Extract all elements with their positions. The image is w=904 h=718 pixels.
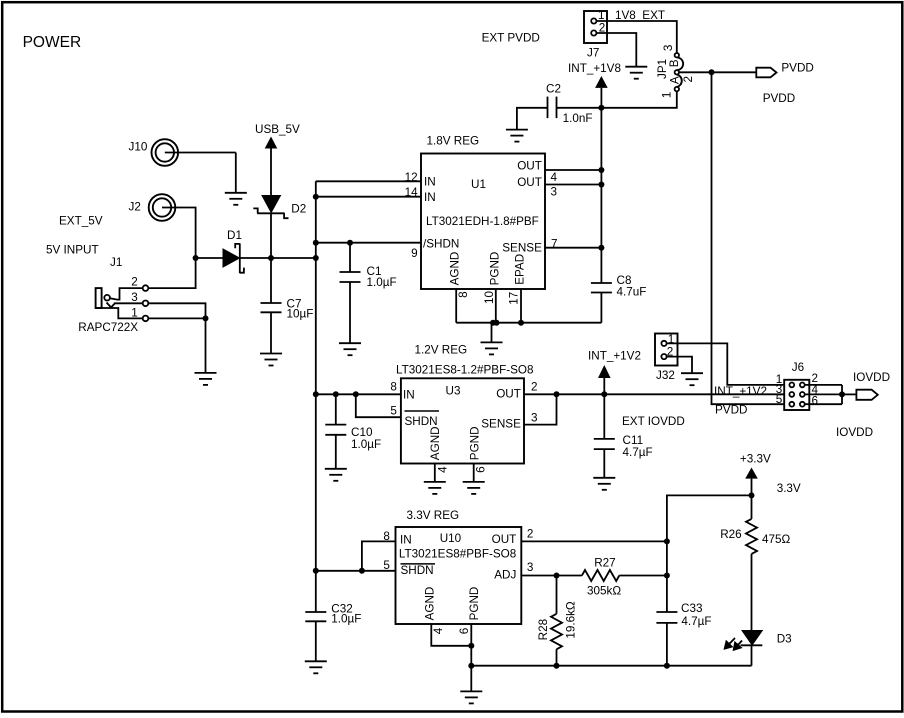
wire U1 /SHDN pin9 xyxy=(316,242,421,244)
svg-text:EXT IOVDD: EXT IOVDD xyxy=(622,415,685,428)
op-amp U3 LT3021ES8-1.2 xyxy=(390,364,537,473)
wire J32 pin1 to J6 pin1 xyxy=(667,343,790,385)
resistor R27 xyxy=(557,557,667,598)
junction INT_+1V8 node xyxy=(598,105,604,111)
svg-text:14: 14 xyxy=(405,186,419,199)
wire INT_+1V8 vertical rail xyxy=(600,108,602,283)
wire U1 pin14 IN xyxy=(316,196,421,198)
junction xyxy=(598,182,604,188)
ground xyxy=(506,130,528,142)
connector J7 xyxy=(584,9,607,60)
svg-text:C2: C2 xyxy=(546,83,561,96)
svg-text:1.0nF: 1.0nF xyxy=(563,112,593,125)
ground xyxy=(463,482,485,494)
svg-text:OUT: OUT xyxy=(517,160,542,173)
svg-text:1: 1 xyxy=(131,306,138,319)
net flag IOVDD output xyxy=(853,371,890,400)
junction xyxy=(468,663,474,669)
ground xyxy=(593,478,615,490)
svg-text:6: 6 xyxy=(812,394,819,407)
svg-text:IN: IN xyxy=(400,534,412,547)
svg-text:IN: IN xyxy=(403,389,415,402)
junction xyxy=(664,663,670,669)
svg-text:PVDD: PVDD xyxy=(715,404,747,417)
svg-text:C33: C33 xyxy=(681,602,702,615)
svg-text:5V INPUT: 5V INPUT xyxy=(46,244,99,257)
svg-text:5: 5 xyxy=(383,559,390,572)
junction xyxy=(518,320,524,326)
svg-text:PGND: PGND xyxy=(488,252,501,286)
wire U1 OUT pin3 xyxy=(545,184,601,186)
junction xyxy=(203,315,209,321)
svg-text:1.2V REG: 1.2V REG xyxy=(415,344,468,357)
svg-text:9: 9 xyxy=(411,247,418,260)
svg-text:4.7uF: 4.7uF xyxy=(617,286,647,299)
svg-text:JP1: JP1 xyxy=(656,59,669,79)
junction xyxy=(468,643,474,649)
wire C2 right to node xyxy=(557,107,602,109)
svg-text:D3: D3 xyxy=(777,633,792,646)
svg-text:1V8_EXT: 1V8_EXT xyxy=(615,9,665,22)
wire J7 pin1 1V8_EXT xyxy=(596,9,676,53)
wire JP1 pin2 to PVDD xyxy=(679,71,756,73)
svg-text:EXT PVDD: EXT PVDD xyxy=(482,31,540,44)
connector J2 xyxy=(129,194,176,221)
ground xyxy=(681,373,703,385)
wire U1 pin12 IN xyxy=(316,180,421,182)
svg-text:12: 12 xyxy=(405,171,418,184)
resistor R26 xyxy=(720,495,790,631)
svg-text:475Ω: 475Ω xyxy=(762,533,791,546)
junction xyxy=(664,538,670,544)
svg-text:J32: J32 xyxy=(656,369,675,382)
svg-text:SENSE: SENSE xyxy=(502,242,542,255)
svg-text:3.3V REG: 3.3V REG xyxy=(407,509,460,522)
wire C2 left to ground xyxy=(517,108,548,130)
capacitor C2 xyxy=(546,83,592,126)
svg-text:A: A xyxy=(669,76,682,84)
svg-text:4: 4 xyxy=(432,627,445,634)
svg-text:IOVDD: IOVDD xyxy=(853,371,890,384)
wire D2 to 5V node xyxy=(270,213,272,258)
junction xyxy=(554,663,560,669)
capacitor C10 xyxy=(325,394,381,451)
wire C10 to ground xyxy=(335,435,337,469)
junction main vertical node xyxy=(313,255,319,261)
ground xyxy=(195,318,217,385)
svg-text:4: 4 xyxy=(437,466,450,473)
junction xyxy=(359,568,365,574)
svg-text:6: 6 xyxy=(475,466,488,473)
capacitor C1 xyxy=(340,265,397,289)
junction xyxy=(353,391,359,397)
net flag +3.3V xyxy=(740,453,771,496)
svg-text:2: 2 xyxy=(682,76,695,83)
wire PVDD vertical rail xyxy=(712,72,790,404)
svg-text:3.3V: 3.3V xyxy=(777,482,801,495)
svg-text:4.7µF: 4.7µF xyxy=(623,446,653,459)
svg-text:SENSE: SENSE xyxy=(481,418,521,431)
svg-text:B: B xyxy=(668,59,681,67)
svg-text:8: 8 xyxy=(457,291,470,298)
wire 5V node to C7 xyxy=(270,258,272,303)
svg-text:EPAD: EPAD xyxy=(513,254,526,285)
svg-text:1.0µF: 1.0µF xyxy=(367,276,397,289)
svg-text:U1: U1 xyxy=(471,178,486,191)
svg-text:PVDD: PVDD xyxy=(781,62,813,75)
svg-text:R28: R28 xyxy=(537,619,550,640)
svg-text:U3: U3 xyxy=(446,385,461,398)
junction xyxy=(313,568,319,574)
wire C7 to ground xyxy=(270,312,272,353)
junction xyxy=(664,573,670,579)
svg-text:8: 8 xyxy=(390,381,397,394)
junction xyxy=(313,194,319,200)
ground xyxy=(339,343,361,355)
wire 3.3V ground bus xyxy=(471,665,751,667)
svg-text:POWER: POWER xyxy=(23,34,82,51)
svg-text:3: 3 xyxy=(662,45,675,52)
svg-text:OUT: OUT xyxy=(496,388,521,401)
wire 5V vertical rail xyxy=(315,181,317,571)
net flag INT_+1V2 xyxy=(588,350,641,395)
svg-text:INT_+1V8: INT_+1V8 xyxy=(568,62,621,75)
connector J1 RAPC722X xyxy=(96,276,149,322)
svg-text:3: 3 xyxy=(527,561,534,574)
wire U10 IN pin8 xyxy=(362,541,396,570)
wire U3 SENSE loop xyxy=(524,394,557,424)
junction xyxy=(749,492,755,498)
diode D2 xyxy=(253,196,306,219)
svg-text:1: 1 xyxy=(661,92,674,99)
svg-text:J10: J10 xyxy=(129,141,148,154)
svg-text:U10: U10 xyxy=(440,532,462,545)
svg-text:R26: R26 xyxy=(720,528,741,541)
wire 3.3V to U10 OUT xyxy=(667,495,752,541)
svg-text:J1: J1 xyxy=(110,256,122,269)
resistor R28 xyxy=(537,576,578,666)
ground xyxy=(325,469,347,481)
ground xyxy=(260,354,282,366)
svg-text:+3.3V: +3.3V xyxy=(740,453,771,466)
junction xyxy=(598,167,604,173)
ground xyxy=(305,661,327,673)
svg-text:AGND: AGND xyxy=(424,587,437,621)
diode D1 xyxy=(223,229,244,273)
svg-text:EXT_5V: EXT_5V xyxy=(59,214,103,227)
wire U3 OUT INT_+1V2 net xyxy=(524,393,789,395)
junction xyxy=(554,391,560,397)
svg-text:IN: IN xyxy=(424,176,436,189)
jumper JP1 xyxy=(656,45,695,99)
junction 5V input node xyxy=(193,255,199,261)
wire J1 pin1 to ground xyxy=(148,317,205,319)
ground xyxy=(625,67,647,79)
LED D3 xyxy=(725,631,792,666)
svg-text:3: 3 xyxy=(551,186,558,199)
svg-text:INT_+1V2: INT_+1V2 xyxy=(588,350,641,363)
junction xyxy=(490,320,500,326)
op-amp U1 LT3021EDH-1.8 xyxy=(405,135,558,305)
wire U10 SHDN pin5 xyxy=(316,570,396,572)
junction C1 node xyxy=(347,240,353,246)
wire J10 to ground xyxy=(165,152,236,154)
svg-text:R27: R27 xyxy=(594,557,615,570)
svg-text:OUT: OUT xyxy=(517,176,542,189)
wire U3 IN pin8 xyxy=(316,393,401,395)
capacitor C8 xyxy=(591,274,646,299)
svg-text:INT_+1V2: INT_+1V2 xyxy=(714,385,767,398)
junction xyxy=(601,391,607,397)
capacitor C32 xyxy=(305,571,361,626)
svg-text:2: 2 xyxy=(527,528,534,541)
junction xyxy=(333,391,339,397)
net flag INT_+1V8 xyxy=(568,62,621,108)
svg-text:SHDN: SHDN xyxy=(401,564,434,577)
wire U10 PGND pin6 stub xyxy=(470,624,472,666)
wire C11 to ground xyxy=(603,449,605,478)
svg-text:LT3021ES8-1.2#PBF-SO8: LT3021ES8-1.2#PBF-SO8 xyxy=(396,364,534,377)
svg-text:10µF: 10µF xyxy=(287,308,314,321)
svg-text:5: 5 xyxy=(776,393,783,406)
junction D2/C7 node xyxy=(268,255,274,261)
junction xyxy=(598,245,604,251)
svg-text:RAPC722X: RAPC722X xyxy=(78,321,138,334)
wire 5V net to D1 anode xyxy=(196,257,223,259)
wire C1 to ground xyxy=(349,282,351,343)
svg-text:1.0µF: 1.0µF xyxy=(331,613,361,626)
wire U10 AGND pin4 stub xyxy=(431,624,471,646)
svg-text:19.6kΩ: 19.6kΩ xyxy=(565,601,578,639)
svg-text:6: 6 xyxy=(458,628,471,635)
wire J7 pin2 to ground xyxy=(596,33,636,67)
ground xyxy=(225,153,247,205)
svg-text:1.0µF: 1.0µF xyxy=(351,438,381,451)
svg-text:1: 1 xyxy=(598,9,605,22)
wire U1 ground bus xyxy=(456,322,601,324)
svg-text:AGND: AGND xyxy=(449,252,462,286)
ground xyxy=(424,482,446,494)
svg-text:17: 17 xyxy=(508,292,521,305)
capacitor C7 xyxy=(261,298,314,321)
capacitor C11 xyxy=(594,394,653,459)
net flag USB_5V xyxy=(255,123,300,196)
svg-text:SHDN: SHDN xyxy=(405,415,438,428)
svg-text:1.8V REG: 1.8V REG xyxy=(427,135,480,148)
wire C1 top xyxy=(349,243,351,272)
svg-text:5: 5 xyxy=(390,405,397,418)
wire U3 PGND pin6 stub xyxy=(473,464,475,482)
svg-text:2: 2 xyxy=(531,381,538,394)
wire INT_+1V8 to JP1 pin1 xyxy=(601,91,676,108)
junction xyxy=(554,573,560,579)
capacitor C33 xyxy=(656,541,711,665)
svg-text:ADJ: ADJ xyxy=(494,569,516,582)
wire U1 PGND pin10 stub xyxy=(495,289,497,323)
svg-text:4: 4 xyxy=(551,171,558,184)
svg-text:PVDD: PVDD xyxy=(763,92,795,105)
wire U10 OUT pin2 xyxy=(521,540,667,542)
svg-text:LT3021EDH-1.8#PBF: LT3021EDH-1.8#PBF xyxy=(426,215,539,228)
svg-text:3: 3 xyxy=(131,291,138,304)
wire C32 to ground xyxy=(315,621,317,661)
wire J6 even pins to IOVDD xyxy=(805,385,857,404)
wire U10 ADJ pin3 xyxy=(521,575,556,577)
svg-text:J7: J7 xyxy=(587,47,599,60)
svg-text:3: 3 xyxy=(531,412,538,425)
wire U1 SENSE pin7 xyxy=(545,247,601,249)
junction xyxy=(313,391,319,397)
wire D1 cathode to node xyxy=(240,257,316,259)
wire U3 AGND pin4 stub xyxy=(434,464,436,482)
svg-text:J2: J2 xyxy=(129,201,141,214)
svg-text:OUT: OUT xyxy=(492,533,517,546)
wire U1 OUT pin4 xyxy=(545,169,601,171)
wire J2 down to 5V net xyxy=(162,208,196,259)
svg-text:10: 10 xyxy=(483,291,496,305)
svg-text:4.7µF: 4.7µF xyxy=(681,615,711,628)
svg-text:IN: IN xyxy=(424,191,436,204)
wire J1 pin2 to 5V net xyxy=(148,258,195,288)
connector J6 xyxy=(776,361,819,410)
wire U1 EPAD pin17 stub xyxy=(520,289,522,323)
connector J32 xyxy=(655,333,678,382)
svg-text:J6: J6 xyxy=(792,361,804,374)
junction xyxy=(839,391,845,397)
svg-text:/SHDN: /SHDN xyxy=(423,238,459,251)
svg-text:2: 2 xyxy=(131,276,138,289)
wire C8 bottom xyxy=(600,293,602,323)
net flag PVDD output xyxy=(756,62,814,78)
svg-text:D1: D1 xyxy=(227,229,242,242)
svg-text:AGND: AGND xyxy=(429,426,442,460)
svg-text:PGND: PGND xyxy=(468,587,481,621)
ground xyxy=(481,323,503,355)
svg-text:IOVDD: IOVDD xyxy=(836,426,873,439)
op-amp U10 LT3021ES8 xyxy=(383,527,533,634)
wire U1 AGND pin8 stub xyxy=(455,289,457,323)
junction xyxy=(313,240,319,246)
wire J1 pin3 down xyxy=(148,303,205,318)
ground xyxy=(460,666,482,704)
svg-text:PGND: PGND xyxy=(468,426,481,460)
svg-text:USB_5V: USB_5V xyxy=(255,123,300,136)
wire U3 SHDN pin5 xyxy=(356,394,401,417)
svg-text:D2: D2 xyxy=(291,203,306,216)
junction PVDD node xyxy=(709,69,715,75)
svg-text:305kΩ: 305kΩ xyxy=(587,585,621,598)
svg-text:LT3021ES8#PBF-SO8: LT3021ES8#PBF-SO8 xyxy=(399,548,516,561)
wire J32 pin2 to ground xyxy=(667,357,692,374)
connector J10 xyxy=(129,139,179,166)
